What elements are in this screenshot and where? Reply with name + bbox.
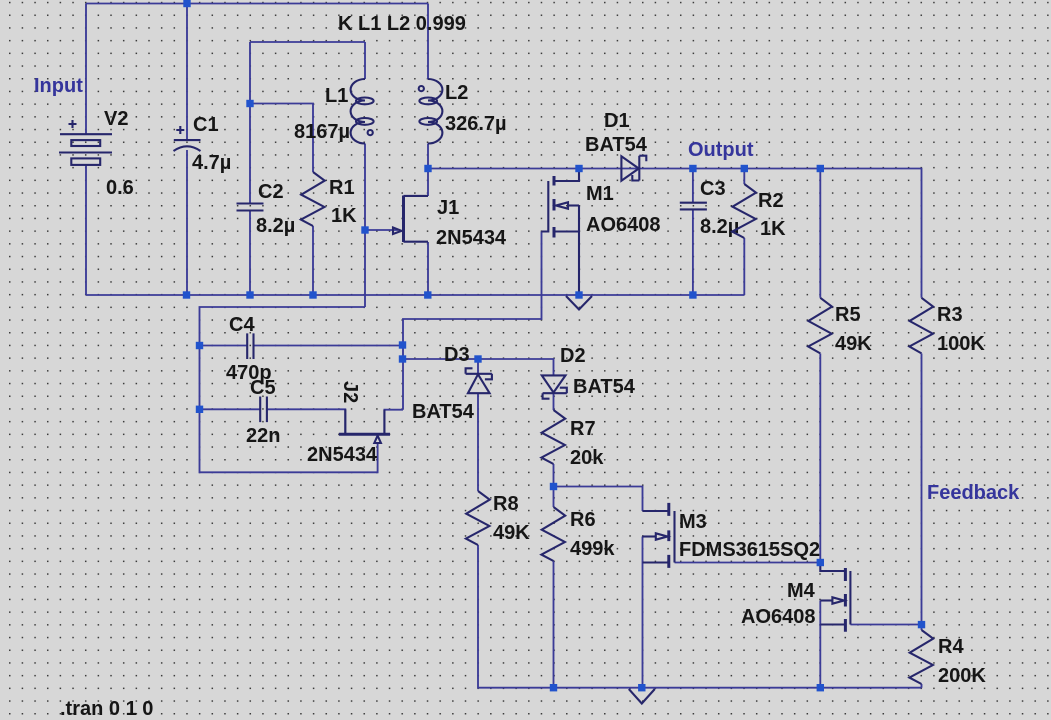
wire J1 drain — [427, 169, 429, 197]
svg-text:Input: Input — [34, 75, 83, 97]
wire R1 bottom — [312, 226, 314, 295]
wire L2 top — [427, 4, 429, 80]
ground G2 — [629, 689, 655, 704]
wire C1 column bottom — [186, 150, 188, 295]
svg-text:22n: 22n — [246, 425, 280, 447]
svg-text:R7: R7 — [570, 418, 596, 440]
JFET J1 — [393, 196, 507, 250]
svg-text:2N5434: 2N5434 — [436, 227, 507, 249]
wire J1 gate — [365, 229, 398, 231]
svg-text:200K: 200K — [938, 665, 986, 687]
resistor R7 — [541, 410, 604, 469]
svg-text:100K: 100K — [937, 333, 985, 355]
svg-text:J2: J2 — [339, 381, 361, 403]
svg-text:2N5434: 2N5434 — [307, 444, 378, 466]
wire inner box top — [250, 41, 365, 43]
svg-text:8167µ: 8167µ — [294, 121, 350, 143]
resistor R2 — [732, 184, 786, 240]
svg-text:BAT54: BAT54 — [573, 376, 636, 398]
wire top rail — [86, 3, 428, 5]
capacitor C4 — [226, 314, 272, 384]
resistor R8 — [466, 491, 530, 545]
inductor L2 — [419, 79, 507, 144]
wire C2 bottom — [249, 211, 251, 295]
wire R5 top lead — [819, 169, 821, 298]
wire C3 top — [692, 169, 694, 203]
wire M3 source column — [642, 537, 644, 688]
svg-text:D3: D3 — [444, 344, 470, 366]
svg-text:J1: J1 — [437, 197, 459, 219]
svg-text:8.2µ: 8.2µ — [256, 215, 295, 237]
wire C3 bottom — [692, 209, 694, 295]
wire R8 bottom — [478, 545, 922, 688]
svg-text:49K: 49K — [493, 522, 530, 544]
wire L1 bottom to gate node — [364, 144, 366, 308]
resistor R4 — [909, 630, 986, 687]
MOSFET M3 — [643, 503, 821, 568]
JFET J2 — [307, 381, 390, 466]
svg-text:R6: R6 — [570, 509, 596, 531]
wire R3 bottom to feedback — [921, 354, 923, 625]
svg-text:FDMS3615SQ2: FDMS3615SQ2 — [679, 539, 820, 561]
svg-text:R4: R4 — [938, 636, 964, 658]
wire D3 to R8 — [477, 393, 479, 491]
svg-text:V2: V2 — [104, 108, 128, 130]
capacitor C5 — [246, 377, 280, 447]
svg-text:D2: D2 — [560, 345, 586, 367]
MOSFET M4 — [741, 563, 850, 632]
capacitor C2 — [237, 181, 296, 237]
wire C4 row — [200, 345, 248, 347]
svg-text:C3: C3 — [700, 178, 726, 200]
svg-text:R3: R3 — [937, 304, 963, 326]
resistor R5 — [808, 298, 872, 355]
svg-text:4.7µ: 4.7µ — [192, 152, 231, 174]
resistor R6 — [541, 507, 615, 561]
svg-text:.tran 0 1 0: .tran 0 1 0 — [60, 698, 153, 720]
svg-text:C5: C5 — [250, 377, 276, 399]
wire M4 column — [819, 601, 821, 688]
wire left loop column — [200, 307, 378, 472]
svg-text:499k: 499k — [570, 538, 615, 560]
svg-text:8.2µ: 8.2µ — [700, 216, 739, 238]
wire R7 to R6 — [553, 464, 555, 507]
wire bottom rail — [86, 294, 744, 296]
svg-text:1K: 1K — [331, 205, 357, 227]
wire R4 leads — [921, 625, 923, 688]
wire J2 source link — [384, 410, 403, 434]
wire J1 source — [427, 242, 429, 295]
wire D2 to R7 — [553, 393, 555, 410]
wire R5 bottom to M4 drain — [819, 354, 821, 563]
MOSFET M1 — [542, 169, 661, 296]
svg-text:C4: C4 — [229, 314, 255, 336]
capacitor C1 — [174, 114, 232, 174]
svg-text:1K: 1K — [760, 218, 786, 240]
svg-text:AO6408: AO6408 — [586, 214, 661, 236]
wire C5 right to J2 — [267, 409, 345, 434]
svg-text:C2: C2 — [258, 181, 284, 203]
svg-text:C1: C1 — [193, 114, 219, 136]
svg-text:L1: L1 — [325, 85, 348, 107]
svg-text:R1: R1 — [329, 177, 355, 199]
svg-text:Feedback: Feedback — [927, 482, 1020, 504]
svg-text:BAT54: BAT54 — [412, 401, 475, 423]
svg-text:326.7µ: 326.7µ — [445, 113, 507, 135]
inductor L1 — [294, 79, 374, 144]
ground G1 — [566, 296, 592, 310]
wire R1 branch — [250, 104, 313, 173]
svg-text:D1: D1 — [604, 110, 630, 132]
svg-text:M1: M1 — [586, 183, 614, 205]
svg-text:M3: M3 — [679, 511, 707, 533]
wire D3 top — [477, 359, 479, 374]
wire R2 leads — [743, 169, 745, 296]
wire D row — [403, 359, 554, 375]
diode D1 — [585, 110, 648, 181]
wire M1 gate column — [403, 232, 542, 410]
svg-text:R2: R2 — [758, 190, 784, 212]
wire battery bottom — [85, 165, 87, 295]
diode D3 — [412, 344, 492, 423]
resistor R3 — [909, 298, 985, 355]
svg-text:K L1 L2 0.999: K L1 L2 0.999 — [338, 13, 466, 35]
svg-text:20k: 20k — [570, 447, 604, 469]
svg-text:R5: R5 — [835, 304, 861, 326]
svg-text:M4: M4 — [787, 580, 816, 602]
svg-text:Output: Output — [688, 139, 754, 161]
wire L1 top — [364, 42, 366, 79]
svg-text:AO6408: AO6408 — [741, 606, 816, 628]
wire main mid rail — [428, 169, 922, 298]
wire R7R6 node to M3 drain — [554, 487, 643, 512]
capacitor C3 — [680, 178, 740, 238]
wire M3 gate to M4 drain node — [675, 562, 821, 564]
wire C5 row — [200, 408, 260, 410]
svg-text:BAT54: BAT54 — [585, 134, 648, 156]
battery V2 — [59, 108, 134, 199]
wire battery column — [85, 4, 87, 135]
wire L2 bottom — [427, 144, 429, 169]
svg-text:0.6: 0.6 — [106, 177, 134, 199]
diode D2 — [542, 345, 636, 399]
wire C1 column top — [186, 4, 188, 141]
junction nodes — [183, 0, 925, 691]
wire C2 column — [249, 42, 251, 203]
wire R6 bottom — [553, 561, 555, 688]
wire M4 gate to feedback — [850, 624, 921, 626]
resistor R1 — [301, 172, 357, 227]
svg-text:R8: R8 — [493, 493, 519, 515]
wire C4 right — [254, 345, 403, 347]
svg-text:L2: L2 — [445, 82, 468, 104]
svg-text:49K: 49K — [835, 333, 872, 355]
